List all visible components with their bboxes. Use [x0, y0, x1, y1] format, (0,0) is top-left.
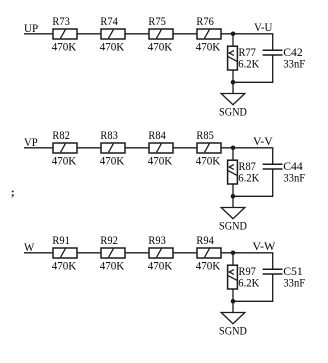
resistor R74 [101, 29, 125, 39]
svg-text:R91: R91 [52, 233, 69, 247]
capacitor C51 [263, 269, 283, 274]
svg-text:470K: 470K [100, 40, 125, 54]
resistor R94 [197, 248, 221, 258]
wire R92 to R93 [125, 252, 149, 254]
svg-text:R83: R83 [100, 128, 117, 142]
wire ground node to SGND [232, 82, 234, 93]
ground SGND [221, 94, 245, 105]
resistor R85 [197, 143, 221, 153]
resistor R82 [53, 143, 77, 153]
wire W to R91 [24, 252, 53, 254]
wire R83 to R84 [125, 147, 149, 149]
wire R93 to R94 [173, 252, 197, 254]
svg-text:33nF: 33nF [283, 56, 305, 70]
svg-text:R73: R73 [52, 14, 69, 28]
svg-text:V-U: V-U [254, 20, 273, 34]
wire UP to R73 [24, 33, 53, 35]
wire C44 to ground node [233, 169, 273, 196]
wire VP to R82 [24, 147, 53, 149]
svg-text:R94: R94 [196, 233, 213, 247]
svg-text:V-V: V-V [253, 134, 273, 148]
svg-text:R85: R85 [196, 128, 213, 142]
capacitor C44 [263, 164, 283, 169]
svg-text:6.2K: 6.2K [238, 56, 259, 70]
svg-text:R82: R82 [52, 128, 69, 142]
wire R82 to R83 [77, 147, 101, 149]
svg-text:6.2K: 6.2K [238, 275, 259, 289]
resistor R93 [149, 248, 173, 258]
svg-text:470K: 470K [100, 154, 125, 168]
svg-text:VP: VP [24, 135, 38, 149]
svg-text:R93: R93 [148, 233, 165, 247]
wire ground node to SGND [232, 196, 234, 207]
svg-text:W: W [24, 240, 35, 254]
resistor R97 (adjustable) [228, 265, 238, 289]
svg-text:SGND: SGND [219, 105, 247, 119]
resistor R76 [197, 29, 221, 39]
junction ground node [231, 194, 236, 199]
svg-text:UP: UP [24, 21, 38, 35]
wire ground node to SGND [232, 301, 234, 312]
wire R77 to ground node [232, 70, 234, 82]
svg-text:R84: R84 [148, 128, 165, 142]
svg-text:SGND: SGND [219, 324, 247, 338]
junction ground node [231, 80, 236, 85]
resistor R75 [149, 29, 173, 39]
ground SGND [221, 208, 245, 219]
ground SGND [221, 313, 245, 324]
wire R91 to R92 [77, 252, 101, 254]
wire R75 to R76 [173, 33, 197, 35]
svg-text:6.2K: 6.2K [238, 170, 259, 184]
svg-text:V-W: V-W [252, 239, 276, 253]
junction ground node [231, 299, 236, 304]
junction node V-W [231, 251, 236, 256]
svg-text:470K: 470K [52, 40, 77, 54]
junction node V-U [231, 32, 236, 37]
svg-text:470K: 470K [52, 259, 77, 273]
resistor R73 [53, 29, 77, 39]
svg-text:33nF: 33nF [283, 275, 305, 289]
svg-text:R92: R92 [100, 233, 117, 247]
svg-text:;: ; [11, 185, 15, 199]
svg-text:470K: 470K [148, 40, 173, 54]
resistor R83 [101, 143, 125, 153]
wire node V-W to R97 [232, 253, 234, 265]
svg-text:470K: 470K [196, 259, 221, 273]
wire node V-V to R87 [232, 148, 234, 160]
wire R97 to ground node [232, 289, 234, 301]
svg-text:33nF: 33nF [283, 170, 305, 184]
wire R73 to R74 [77, 33, 101, 35]
resistor R92 [101, 248, 125, 258]
wire C51 to ground node [233, 274, 273, 301]
wire C42 to ground node [233, 55, 273, 82]
svg-text:470K: 470K [148, 259, 173, 273]
svg-text:470K: 470K [148, 154, 173, 168]
wire R85 to node V-V and C44 [221, 148, 273, 164]
svg-text:470K: 470K [196, 154, 221, 168]
svg-text:R76: R76 [196, 14, 213, 28]
wire R76 to node V-U and C42 [221, 34, 273, 50]
wire R84 to R85 [173, 147, 197, 149]
junction node V-V [231, 146, 236, 151]
wire node V-U to R77 [232, 34, 234, 46]
svg-text:470K: 470K [52, 154, 77, 168]
resistor R84 [149, 143, 173, 153]
capacitor C42 [263, 50, 283, 55]
svg-text:470K: 470K [100, 259, 125, 273]
wire R94 to node V-W and C51 [221, 253, 273, 269]
resistor R87 (adjustable) [228, 160, 238, 184]
resistor R77 (adjustable) [228, 46, 238, 70]
wire R74 to R75 [125, 33, 149, 35]
wire R87 to ground node [232, 184, 234, 196]
svg-text:SGND: SGND [219, 219, 247, 233]
svg-text:470K: 470K [196, 40, 221, 54]
svg-text:R74: R74 [100, 14, 117, 28]
resistor R91 [53, 248, 77, 258]
svg-text:R75: R75 [148, 14, 165, 28]
